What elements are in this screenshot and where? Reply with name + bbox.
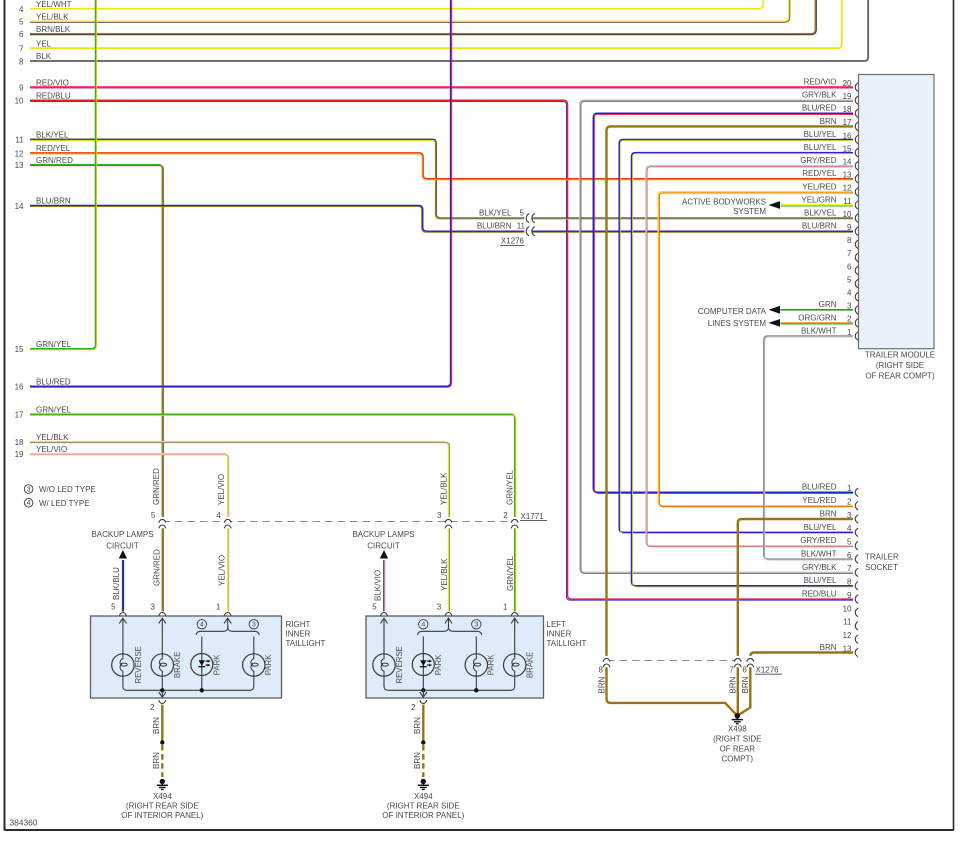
svg-text:YEL/VIO: YEL/VIO bbox=[217, 555, 226, 586]
svg-text:BLK/WHT: BLK/WHT bbox=[801, 549, 837, 558]
trailer module pin 3 terminal bbox=[855, 306, 858, 314]
trailer module pin 13 terminal bbox=[855, 175, 858, 183]
arrow up backup lamps (right) bbox=[119, 550, 127, 559]
connector X1771 dashed line bbox=[163, 521, 517, 523]
svg-text:6: 6 bbox=[847, 551, 852, 560]
svg-text:GRN/RED: GRN/RED bbox=[152, 468, 161, 505]
svg-text:BRN: BRN bbox=[729, 676, 738, 693]
trailer module pin 4 terminal bbox=[855, 293, 858, 301]
svg-text:5: 5 bbox=[372, 602, 377, 611]
trailer module pin 11 terminal bbox=[855, 201, 858, 209]
connector X1276 bottom dashed line bbox=[607, 660, 737, 662]
svg-text:OF REAR: OF REAR bbox=[720, 745, 756, 754]
svg-text:3: 3 bbox=[27, 486, 31, 493]
bulb REVERSE right taillight bbox=[112, 654, 134, 676]
wire row 19 YEL/VIO to right inner taillight pin 1 bbox=[30, 454, 228, 612]
connector break X1276 pin 11 bbox=[524, 229, 532, 234]
wire YEL/GRN module pin 11 to active bodyworks system bbox=[781, 204, 854, 206]
svg-text:BRN: BRN bbox=[820, 117, 837, 126]
trailer module pin 6 terminal bbox=[855, 266, 858, 274]
svg-text:2: 2 bbox=[411, 703, 416, 712]
wire BLU/RED module pin 18 to trailer socket pin 1 bbox=[593, 113, 853, 492]
left taillight circled 4 bbox=[419, 620, 428, 629]
trailer module pin 14 terminal bbox=[855, 162, 858, 170]
trailer socket pin 7 terminal bbox=[855, 568, 858, 576]
trailer module pin 17 terminal bbox=[855, 122, 858, 130]
wire row 15 GRN/YEL to top edge bbox=[30, 0, 96, 349]
svg-text:11: 11 bbox=[15, 136, 24, 145]
svg-text:RED/VIO: RED/VIO bbox=[804, 78, 837, 87]
wire GRY/RED module pin 14 to trailer socket pin 5 bbox=[646, 166, 853, 546]
trailer module U1 box bbox=[859, 75, 935, 349]
svg-text:8: 8 bbox=[847, 236, 852, 245]
svg-text:YEL/BLK: YEL/BLK bbox=[440, 558, 449, 591]
right taillight brace bbox=[196, 627, 259, 635]
wire row 12 RED/YEL to trailer module pin 13 bbox=[30, 153, 853, 179]
wire BRN trailer socket pin 3 to ground X498 bbox=[738, 519, 853, 714]
svg-text:(RIGHT SIDE: (RIGHT SIDE bbox=[876, 361, 924, 370]
junction dot left bus 1 bbox=[421, 688, 425, 692]
left taillight LED stem bbox=[422, 637, 424, 654]
trailer socket pin 2 terminal bbox=[855, 501, 858, 509]
svg-text:4: 4 bbox=[421, 622, 425, 629]
svg-text:2: 2 bbox=[150, 703, 155, 712]
svg-text:8: 8 bbox=[19, 57, 24, 66]
arrow ORG/GRN to computer data lines system bbox=[769, 319, 781, 327]
svg-text:PARK: PARK bbox=[434, 654, 443, 675]
svg-text:GRN: GRN bbox=[819, 300, 837, 309]
ground X498 bbox=[735, 713, 740, 718]
trailer module pin 7 terminal bbox=[855, 253, 858, 261]
ground X494 left bbox=[421, 779, 426, 784]
svg-text:BACKUP LAMPS: BACKUP LAMPS bbox=[352, 530, 414, 539]
svg-text:X494: X494 bbox=[153, 792, 172, 801]
svg-text:W/ LED TYPE: W/ LED TYPE bbox=[39, 499, 90, 508]
svg-text:RIGHT: RIGHT bbox=[286, 620, 311, 629]
svg-text:RED/BLU: RED/BLU bbox=[36, 92, 71, 101]
trailer socket pin 6 terminal bbox=[855, 555, 858, 563]
svg-text:BLU/YEL: BLU/YEL bbox=[804, 130, 837, 139]
left taillight pin 5 entry terminal bbox=[381, 613, 388, 616]
svg-text:15: 15 bbox=[15, 345, 24, 354]
wire row 17 GRN/YEL to left inner taillight pin 1 bbox=[30, 414, 515, 611]
svg-text:CIRCUIT: CIRCUIT bbox=[106, 542, 139, 551]
svg-text:GRY/RED: GRY/RED bbox=[800, 156, 837, 165]
svg-text:BLU/YEL: BLU/YEL bbox=[804, 143, 837, 152]
wire BRN dashed to ground X494 left bbox=[422, 745, 424, 777]
wire BRN trailer socket pin 13 to ground X498 bbox=[739, 653, 853, 715]
trailer socket pin 4 terminal bbox=[855, 528, 858, 536]
trailer module pin 5 terminal bbox=[855, 279, 858, 287]
arrow up backup lamps (left) bbox=[380, 550, 388, 559]
svg-text:TRAILER: TRAILER bbox=[865, 553, 899, 562]
svg-text:BRN: BRN bbox=[413, 717, 422, 734]
svg-text:YEL/VIO: YEL/VIO bbox=[217, 474, 226, 505]
junction dot right bus 2 bbox=[200, 688, 204, 692]
svg-text:7: 7 bbox=[847, 249, 852, 258]
connector break X1771 pin 2 bbox=[512, 517, 517, 528]
left taillight pin 2 exit terminal bbox=[420, 700, 427, 703]
svg-text:YEL/BLK: YEL/BLK bbox=[36, 13, 69, 22]
right taillight pin 2 exit arrow bbox=[161, 690, 163, 697]
svg-text:10: 10 bbox=[15, 97, 24, 106]
trailer module pin 19 terminal bbox=[855, 96, 858, 104]
svg-text:384360: 384360 bbox=[10, 818, 38, 828]
svg-text:GRN/YEL: GRN/YEL bbox=[36, 406, 72, 415]
svg-text:LEFT: LEFT bbox=[547, 620, 567, 629]
svg-text:X498: X498 bbox=[728, 725, 747, 734]
svg-text:19: 19 bbox=[15, 450, 24, 459]
svg-text:OF INTERIOR PANEL): OF INTERIOR PANEL) bbox=[382, 811, 464, 820]
svg-text:GRN/YEL: GRN/YEL bbox=[506, 555, 515, 591]
svg-text:BRN: BRN bbox=[820, 509, 837, 518]
wire row 7 YEL (to top edge) bbox=[30, 0, 842, 48]
svg-text:(RIGHT REAR SIDE: (RIGHT REAR SIDE bbox=[387, 802, 460, 811]
svg-text:1: 1 bbox=[503, 602, 508, 611]
svg-text:BLK/YEL: BLK/YEL bbox=[479, 208, 512, 217]
svg-text:SYSTEM: SYSTEM bbox=[733, 207, 766, 216]
svg-text:BLK/VIO: BLK/VIO bbox=[373, 570, 382, 601]
left taillight pin 3 internal arrow bbox=[445, 618, 452, 623]
svg-text:YEL: YEL bbox=[36, 39, 52, 48]
wire ORG/GRN module pin 2 to computer data lines system bbox=[781, 322, 854, 324]
svg-text:7: 7 bbox=[19, 45, 24, 54]
svg-text:BRAKE: BRAKE bbox=[173, 652, 182, 678]
svg-text:7: 7 bbox=[847, 564, 852, 573]
svg-text:YEL/RED: YEL/RED bbox=[802, 182, 836, 191]
svg-text:X1771: X1771 bbox=[521, 512, 545, 521]
svg-text:3: 3 bbox=[437, 511, 442, 520]
trailer socket pin 11 terminal bbox=[855, 622, 858, 630]
svg-text:10: 10 bbox=[843, 210, 852, 219]
wire BLK/BLU right taillight pin 5 to backup lamps circuit bbox=[121, 560, 123, 612]
svg-text:18: 18 bbox=[15, 438, 24, 447]
right taillight circled 3 bbox=[249, 620, 258, 629]
arrow GRN to computer data lines system bbox=[769, 306, 781, 314]
svg-text:BRN/BLK: BRN/BLK bbox=[36, 25, 71, 34]
connector break X1771 pin 5 bbox=[160, 517, 165, 528]
svg-text:PARK: PARK bbox=[487, 654, 496, 675]
svg-text:RED/VIO: RED/VIO bbox=[36, 78, 69, 87]
svg-text:BLK/YEL: BLK/YEL bbox=[804, 209, 837, 218]
bulb BRAKE left taillight bbox=[504, 654, 526, 676]
right inner taillight box bbox=[91, 616, 282, 698]
svg-text:GRN/RED: GRN/RED bbox=[36, 156, 73, 165]
svg-text:YEL/BLK: YEL/BLK bbox=[36, 433, 69, 442]
right taillight LED stem bbox=[201, 637, 203, 654]
svg-text:1: 1 bbox=[216, 602, 221, 611]
trailer module pin 15 terminal bbox=[855, 148, 858, 156]
svg-text:2: 2 bbox=[503, 511, 508, 520]
svg-text:INNER: INNER bbox=[547, 630, 572, 639]
junction dot BRN left bbox=[421, 740, 425, 744]
trailer module pin 20 terminal bbox=[855, 83, 858, 91]
svg-text:GRN/RED: GRN/RED bbox=[153, 549, 162, 586]
svg-text:ACTIVE BODYWORKS: ACTIVE BODYWORKS bbox=[682, 197, 766, 206]
svg-text:8: 8 bbox=[847, 578, 852, 587]
svg-text:4: 4 bbox=[19, 5, 24, 14]
right taillight pin 5 internal arrow bbox=[119, 618, 126, 623]
bulb REVERSE left taillight bbox=[373, 654, 395, 676]
svg-text:YEL/VIO: YEL/VIO bbox=[36, 445, 67, 454]
connector break X1771 pin 4 bbox=[225, 517, 230, 528]
svg-text:20: 20 bbox=[843, 79, 852, 88]
right taillight circled 4 bbox=[197, 620, 206, 629]
svg-text:3: 3 bbox=[437, 602, 442, 611]
right taillight ground bus bbox=[123, 676, 254, 691]
wire row 11 BLK/YEL to trailer module pin 10 bbox=[30, 139, 853, 218]
svg-text:BLU/BRN: BLU/BRN bbox=[802, 222, 837, 231]
right taillight pin 1 internal arrow bbox=[224, 618, 231, 623]
svg-text:ORG/GRN: ORG/GRN bbox=[798, 313, 836, 322]
left inner taillight box bbox=[366, 616, 544, 698]
wire row 13 GRN/RED to right inner taillight pin 3 bbox=[30, 165, 162, 612]
svg-text:TAILLIGHT: TAILLIGHT bbox=[286, 639, 326, 648]
svg-text:CIRCUIT: CIRCUIT bbox=[367, 542, 400, 551]
left taillight circled 3 bbox=[472, 620, 481, 629]
trailer module pin 8 terminal bbox=[855, 240, 858, 248]
trailer socket pin 5 terminal bbox=[855, 542, 858, 550]
trailer module pin 2 terminal bbox=[855, 319, 858, 327]
svg-text:5: 5 bbox=[847, 538, 852, 547]
connector break X1276 pin 8 bbox=[604, 656, 609, 667]
svg-text:BLU/YEL: BLU/YEL bbox=[804, 576, 837, 585]
svg-text:5: 5 bbox=[19, 18, 24, 27]
wire BLK/WHT module pin 1 to trailer socket pin 6 bbox=[764, 336, 853, 559]
wire BRN left taillight pin 2 to ground bbox=[422, 705, 424, 743]
right taillight pin 3 entry terminal bbox=[159, 613, 166, 616]
wire row 4 YEL/WHT (to top edge) bbox=[30, 0, 763, 9]
svg-text:9: 9 bbox=[847, 223, 852, 232]
svg-text:2: 2 bbox=[847, 497, 852, 506]
trailer module pin 12 terminal bbox=[855, 188, 858, 196]
svg-text:GRY/RED: GRY/RED bbox=[800, 536, 837, 545]
wire row 9 RED/VIO to trailer module pin 20 bbox=[30, 86, 853, 88]
connector break X1276 pin 5 bbox=[524, 216, 532, 221]
wire GRY/BLK module pin 19 to trailer socket pin 7 bbox=[580, 100, 853, 572]
wire row 6 BRN/BLK (to top edge) bbox=[30, 0, 815, 34]
svg-text:13: 13 bbox=[843, 171, 852, 180]
legend w/ led type bbox=[24, 499, 33, 508]
svg-text:BLU/YEL: BLU/YEL bbox=[804, 523, 837, 532]
left taillight brace bbox=[418, 627, 482, 635]
svg-text:X494: X494 bbox=[414, 792, 433, 801]
svg-text:BRN: BRN bbox=[413, 752, 422, 769]
trailer module pin 18 terminal bbox=[855, 109, 858, 117]
junction dot left bus 2 bbox=[474, 688, 478, 692]
svg-text:BLU/RED: BLU/RED bbox=[802, 483, 837, 492]
svg-text:BACKUP LAMPS: BACKUP LAMPS bbox=[91, 530, 153, 539]
wire GRN module pin 3 to computer data lines system bbox=[781, 309, 854, 311]
ground X494 right bbox=[160, 779, 165, 784]
trailer socket pin 12 terminal bbox=[855, 635, 858, 643]
svg-text:TAILLIGHT: TAILLIGHT bbox=[547, 639, 587, 648]
svg-text:REVERSE: REVERSE bbox=[134, 646, 143, 683]
svg-text:7: 7 bbox=[729, 665, 734, 674]
svg-text:BRN: BRN bbox=[741, 676, 750, 693]
right taillight pin 3 internal arrow bbox=[159, 618, 166, 623]
left taillight pin 1 entry terminal bbox=[511, 613, 518, 616]
svg-text:RED/BLU: RED/BLU bbox=[802, 590, 837, 599]
svg-text:INNER: INNER bbox=[286, 630, 311, 639]
wire row 8 BLK (to top edge) bbox=[30, 0, 868, 61]
right taillight pin 5 entry terminal bbox=[119, 613, 126, 616]
svg-text:YEL/GRN: YEL/GRN bbox=[801, 195, 836, 204]
svg-text:PARK: PARK bbox=[213, 654, 222, 675]
diagram frame left border bbox=[4, 0, 6, 831]
svg-text:5: 5 bbox=[847, 275, 852, 284]
arrow to active bodyworks system bbox=[769, 201, 781, 209]
wire BLU/YEL module pin 15 to trailer socket pin 8 bbox=[632, 153, 854, 586]
junction dot BRN right bbox=[160, 740, 164, 744]
bulb PARK right taillight bbox=[243, 654, 265, 676]
svg-text:6: 6 bbox=[847, 262, 852, 271]
svg-text:3: 3 bbox=[151, 602, 156, 611]
svg-text:BLU/BRN: BLU/BRN bbox=[477, 222, 512, 231]
svg-text:14: 14 bbox=[15, 202, 24, 211]
svg-text:5: 5 bbox=[151, 511, 156, 520]
wire BRN right taillight pin 2 to ground bbox=[161, 705, 163, 743]
trailer module pin 16 terminal bbox=[855, 135, 858, 143]
left taillight PARK stem bbox=[475, 637, 477, 654]
connector break X1771 pin 3 bbox=[446, 517, 451, 528]
trailer module pin 10 terminal bbox=[855, 214, 858, 222]
connector break X1276 pin 7 bbox=[735, 656, 740, 667]
svg-text:YEL/WHT: YEL/WHT bbox=[36, 0, 72, 9]
svg-text:SOCKET: SOCKET bbox=[865, 563, 898, 572]
wire BLK/VIO left taillight pin 5 to backup lamps circuit bbox=[383, 560, 385, 612]
svg-text:BLU/BRN: BLU/BRN bbox=[36, 197, 71, 206]
svg-text:4: 4 bbox=[216, 511, 221, 520]
svg-text:BRN: BRN bbox=[152, 752, 161, 769]
svg-text:6: 6 bbox=[742, 665, 747, 674]
svg-text:REVERSE: REVERSE bbox=[395, 646, 404, 683]
svg-text:TRAILER MODULE: TRAILER MODULE bbox=[865, 351, 935, 360]
trailer socket pin 1 terminal bbox=[855, 488, 858, 496]
svg-text:4: 4 bbox=[847, 524, 852, 533]
svg-text:X1276: X1276 bbox=[756, 665, 780, 674]
trailer module pin 1 terminal bbox=[855, 332, 858, 340]
LED PARK left taillight bbox=[412, 654, 434, 676]
wire YEL/RED module pin 12 to trailer socket pin 2 bbox=[658, 192, 853, 506]
svg-text:BLU/RED: BLU/RED bbox=[802, 104, 837, 113]
wire row 16 BLU/RED to top edge bbox=[30, 0, 451, 386]
trailer socket pin 13 terminal bbox=[855, 648, 858, 656]
wire BRN module pin 17 to ground X498 bbox=[607, 126, 854, 714]
svg-text:PARK: PARK bbox=[264, 654, 273, 675]
svg-text:OF INTERIOR PANEL): OF INTERIOR PANEL) bbox=[121, 811, 203, 820]
svg-text:BLK/YEL: BLK/YEL bbox=[36, 131, 69, 140]
svg-text:BRAKE: BRAKE bbox=[525, 652, 534, 678]
svg-text:1: 1 bbox=[847, 484, 852, 493]
left taillight pin 5 internal arrow bbox=[380, 618, 387, 623]
svg-text:BLU/RED: BLU/RED bbox=[36, 377, 71, 386]
diagram frame right border bbox=[953, 0, 955, 831]
svg-text:3: 3 bbox=[252, 622, 256, 629]
trailer socket pin 10 terminal bbox=[855, 608, 858, 616]
left taillight pin 3 entry terminal bbox=[445, 613, 452, 616]
svg-text:GRN/YEL: GRN/YEL bbox=[36, 340, 72, 349]
svg-text:11: 11 bbox=[843, 618, 852, 627]
svg-text:8: 8 bbox=[599, 665, 604, 674]
svg-text:9: 9 bbox=[847, 591, 852, 600]
right taillight PARK stem bbox=[253, 637, 255, 654]
svg-text:GRY/BLK: GRY/BLK bbox=[802, 563, 837, 572]
svg-text:11: 11 bbox=[517, 222, 526, 231]
connector break X1276 pin 6 bbox=[748, 656, 753, 667]
left taillight pin 1 internal arrow bbox=[511, 618, 518, 623]
svg-text:13: 13 bbox=[15, 161, 24, 170]
left taillight pin 2 exit arrow bbox=[422, 690, 424, 697]
svg-text:6: 6 bbox=[19, 30, 24, 39]
svg-text:RED/YEL: RED/YEL bbox=[36, 144, 71, 153]
wire BLU/YEL module pin 16 to trailer socket pin 4 bbox=[619, 140, 853, 533]
trailer module pin 9 terminal bbox=[855, 227, 858, 235]
svg-text:BLK/WHT: BLK/WHT bbox=[801, 326, 837, 335]
junction dot right bus 1 bbox=[160, 688, 164, 692]
svg-text:4: 4 bbox=[27, 500, 31, 507]
svg-text:BRN: BRN bbox=[820, 643, 837, 652]
svg-text:X1276: X1276 bbox=[501, 236, 525, 245]
svg-text:BLK: BLK bbox=[36, 52, 52, 61]
trailer socket pin 9 terminal bbox=[855, 595, 858, 603]
svg-text:OF REAR COMPT): OF REAR COMPT) bbox=[865, 372, 935, 381]
svg-text:LINES SYSTEM: LINES SYSTEM bbox=[708, 319, 767, 328]
trailer socket pin 3 terminal bbox=[855, 515, 858, 523]
svg-text:5: 5 bbox=[520, 208, 525, 217]
wire row 14 BLU/BRN to trailer module pin 9 bbox=[30, 206, 853, 232]
svg-text:YEL/RED: YEL/RED bbox=[802, 496, 836, 505]
svg-text:10: 10 bbox=[843, 604, 852, 613]
svg-text:YEL/BLK: YEL/BLK bbox=[439, 472, 448, 505]
svg-text:4: 4 bbox=[200, 622, 204, 629]
svg-text:COMPUTER DATA: COMPUTER DATA bbox=[698, 307, 767, 316]
svg-text:RED/YEL: RED/YEL bbox=[802, 169, 837, 178]
svg-text:COMPT): COMPT) bbox=[722, 755, 754, 764]
legend w/o led type bbox=[24, 485, 33, 494]
left taillight ground bus bbox=[384, 676, 515, 691]
svg-text:BRN: BRN bbox=[597, 676, 606, 693]
LED PARK right taillight bbox=[191, 654, 213, 676]
svg-text:3: 3 bbox=[474, 622, 478, 629]
wire row 10 RED/BLU to trailer socket pin 9 bbox=[30, 100, 853, 599]
svg-text:GRY/BLK: GRY/BLK bbox=[802, 91, 837, 100]
svg-text:9: 9 bbox=[19, 84, 24, 93]
svg-text:W/O LED TYPE: W/O LED TYPE bbox=[39, 485, 96, 494]
right taillight pin 1 entry terminal bbox=[224, 613, 231, 616]
svg-text:BRN: BRN bbox=[152, 717, 161, 734]
svg-text:16: 16 bbox=[15, 383, 24, 392]
wire BRN dashed to ground X494 right bbox=[161, 745, 163, 777]
svg-text:(RIGHT SIDE: (RIGHT SIDE bbox=[713, 735, 761, 744]
svg-text:12: 12 bbox=[843, 631, 852, 640]
svg-text:GRN/YEL: GRN/YEL bbox=[505, 469, 514, 505]
svg-text:12: 12 bbox=[15, 149, 24, 158]
svg-text:5: 5 bbox=[111, 602, 116, 611]
right taillight pin 2 exit terminal bbox=[159, 700, 166, 703]
bulb PARK left taillight bbox=[465, 654, 487, 676]
trailer socket pin 8 terminal bbox=[855, 582, 858, 590]
bulb BRAKE right taillight bbox=[151, 654, 173, 676]
diagram frame bottom border bbox=[5, 829, 954, 831]
svg-text:(RIGHT REAR SIDE: (RIGHT REAR SIDE bbox=[126, 802, 199, 811]
svg-text:4: 4 bbox=[847, 289, 852, 298]
wire row 18 YEL/BLK to left inner taillight pin 3 bbox=[30, 442, 449, 612]
svg-text:BLK/BLU: BLK/BLU bbox=[112, 567, 121, 600]
wire row 5 YEL/BLK (to top edge) bbox=[30, 0, 789, 21]
svg-text:17: 17 bbox=[15, 411, 24, 420]
